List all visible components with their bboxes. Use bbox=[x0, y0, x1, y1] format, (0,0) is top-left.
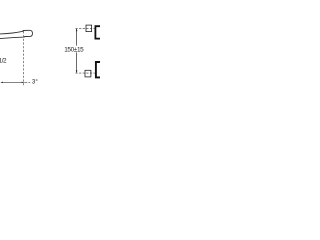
svg-text:1/2: 1/2 bbox=[0, 57, 7, 64]
svg-text:3°: 3° bbox=[32, 78, 38, 85]
svg-text:150±15: 150±15 bbox=[64, 47, 84, 54]
